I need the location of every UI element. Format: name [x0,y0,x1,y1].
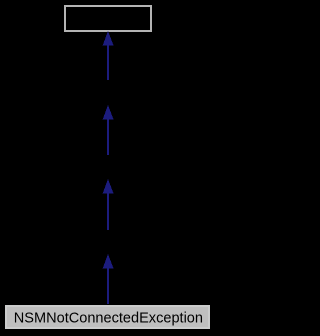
inheritance arrow 1 (tail) [107,45,109,80]
parent class box (empty/truncated node) [65,6,151,31]
inheritance arrow 4 (head) [103,254,114,269]
inheritance arrow 2 (head) [103,105,114,120]
NSMNotConnectedException node box [6,306,209,328]
svg-text:NSMNotConnectedException: NSMNotConnectedException [14,311,203,327]
inheritance arrow 1 (head) [103,31,114,46]
inheritance arrow 2 (tail) [107,119,109,155]
inheritance arrow 3 (head) [103,179,114,194]
inheritance arrow 3 (tail) [107,193,109,230]
inheritance arrow 4 (tail) [107,267,109,304]
